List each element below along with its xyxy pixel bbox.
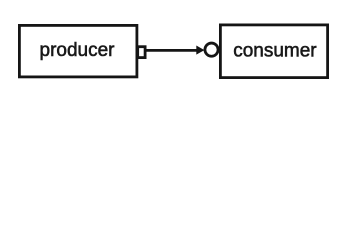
svg-text:consumer: consumer [233, 40, 317, 61]
svg-text:producer: producer [40, 40, 116, 61]
